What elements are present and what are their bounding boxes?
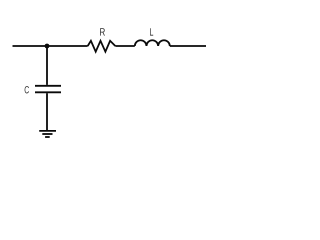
capacitor C bottom plate bbox=[35, 91, 61, 93]
node junction dot bbox=[45, 44, 50, 49]
label C bbox=[25, 86, 29, 93]
wire right segment bbox=[170, 45, 206, 47]
resistor R bbox=[88, 41, 116, 52]
wire left segment bbox=[13, 45, 88, 47]
wire between R and L bbox=[115, 45, 135, 47]
ground bar 3 bbox=[45, 136, 50, 138]
ground bar 2 bbox=[42, 133, 52, 135]
label R bbox=[100, 28, 105, 35]
ground bar 1 bbox=[39, 130, 56, 132]
wire junction to capacitor bbox=[46, 46, 48, 85]
label L bbox=[150, 28, 153, 35]
inductor L bbox=[135, 40, 170, 46]
capacitor C top plate bbox=[35, 85, 61, 87]
wire capacitor to ground bbox=[46, 93, 48, 130]
